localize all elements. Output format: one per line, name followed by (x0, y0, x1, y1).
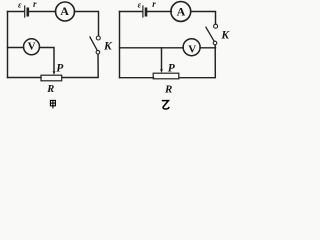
voltmeter V (circuit 甲) (24, 39, 40, 55)
svg-text:r: r (33, 0, 37, 9)
wire: left vertical side (circuit 甲) (7, 12, 9, 78)
svg-text:V: V (28, 41, 36, 53)
wire: voltmeter to wiper corner (circuit 甲) (40, 48, 55, 72)
battery cell (ε, r) (circuit 甲) (25, 6, 28, 17)
svg-text:A: A (60, 4, 69, 18)
wire: middle horizontal from left side to voltmeter (circuit 乙) (120, 47, 184, 49)
wire: ammeter to top-right corner, down to switch (circuit 甲) (74, 12, 98, 36)
wire: voltmeter to right side (circuit 乙) (200, 47, 215, 49)
wire: battery to ammeter (circuit 甲) (29, 11, 55, 13)
ammeter A (circuit 乙) (171, 2, 191, 22)
wire: top-left segment to battery (circuit 甲) (8, 11, 24, 13)
wire: left side to voltmeter (circuit 甲) (8, 47, 24, 49)
voltmeter V (circuit 乙) (183, 39, 200, 56)
switch K (circuit 甲) (90, 36, 100, 54)
wire: ammeter to top-right corner, down to switch (circuit 乙) (191, 12, 216, 24)
rheostat R body (circuit 乙) (153, 73, 179, 79)
svg-text:R: R (46, 84, 54, 95)
wire: rheostat to bottom-left corner (circuit 甲) (8, 77, 42, 79)
wire: rheostat to bottom-left corner (circuit 乙) (120, 77, 154, 79)
svg-text:R: R (164, 83, 172, 95)
svg-text:A: A (177, 5, 186, 19)
ammeter A (circuit 甲) (56, 2, 75, 21)
svg-text:K: K (220, 30, 230, 42)
svg-text:K: K (103, 40, 113, 52)
battery cell (ε, r) (circuit 乙) (143, 6, 146, 17)
svg-text:P: P (56, 62, 64, 74)
svg-text:V: V (188, 43, 196, 55)
svg-text:r: r (152, 0, 156, 9)
wire: wiper drop from middle wire (circuit 乙) (161, 48, 163, 70)
wire: top-left segment to battery (circuit 乙) (120, 11, 142, 13)
wire: left vertical side (circuit 乙) (119, 12, 121, 78)
switch K (circuit 乙) (206, 24, 218, 45)
svg-text:P: P (168, 62, 176, 74)
wire: switch to bottom-right corner, bottom to rheostat (circuit 甲) (62, 54, 98, 77)
wiper arrow onto rheostat (circuit 甲) (53, 71, 56, 75)
label 甲 (caption, drawn) (50, 100, 55, 108)
rheostat R body (circuit 甲) (41, 75, 62, 81)
wiper arrow onto rheostat (circuit 乙) (160, 69, 163, 73)
wire: battery to ammeter (circuit 乙) (147, 11, 171, 13)
wire: switch to bottom-right corner, bottom to rheostat (circuit 乙) (179, 45, 216, 78)
svg-text:ε: ε (18, 0, 22, 9)
svg-text:ε: ε (138, 0, 142, 10)
label 乙 (caption, drawn) (162, 101, 169, 109)
